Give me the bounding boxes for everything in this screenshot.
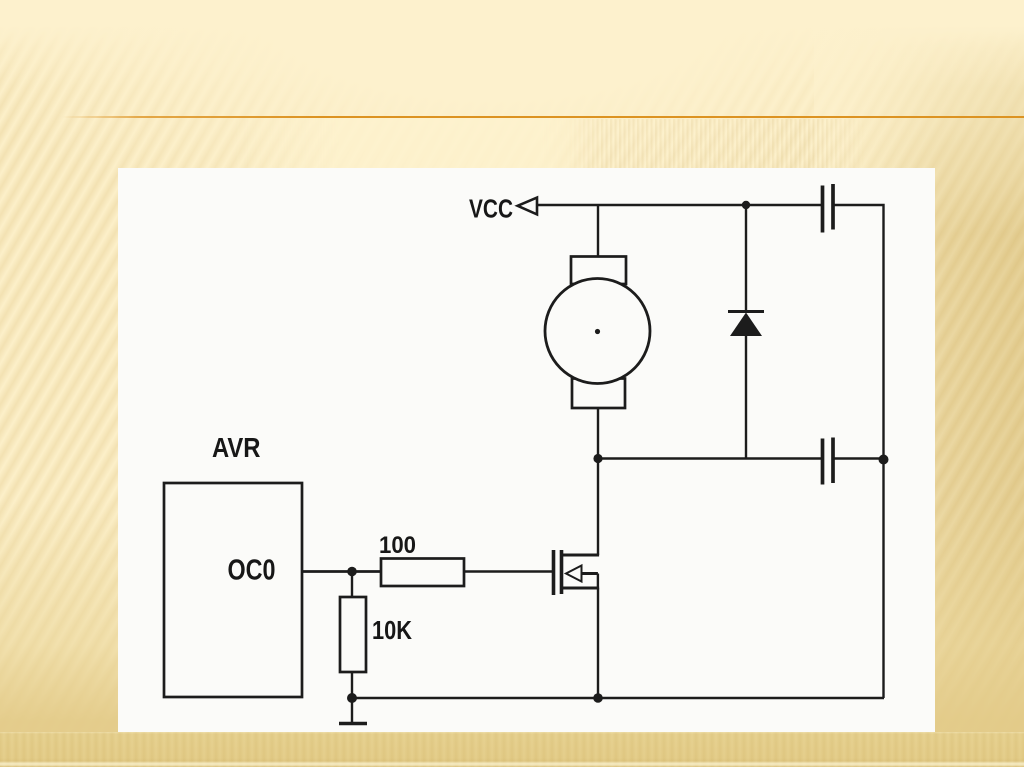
svg-text:10K: 10K xyxy=(372,615,412,645)
svg-text:OC0: OC0 xyxy=(228,554,276,586)
svg-text:VCC: VCC xyxy=(469,194,513,224)
svg-text:100: 100 xyxy=(379,532,416,559)
svg-text:AVR: AVR xyxy=(212,432,261,463)
